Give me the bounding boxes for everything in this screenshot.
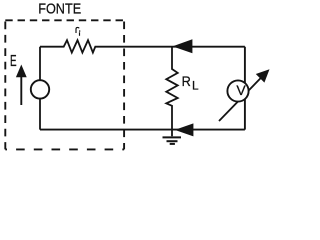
svg-text:R: R <box>182 74 191 89</box>
svg-text:E: E <box>10 53 17 70</box>
svg-text:L: L <box>192 78 199 92</box>
svg-text:V: V <box>236 82 246 98</box>
svg-text:FONTE: FONTE <box>38 0 81 17</box>
